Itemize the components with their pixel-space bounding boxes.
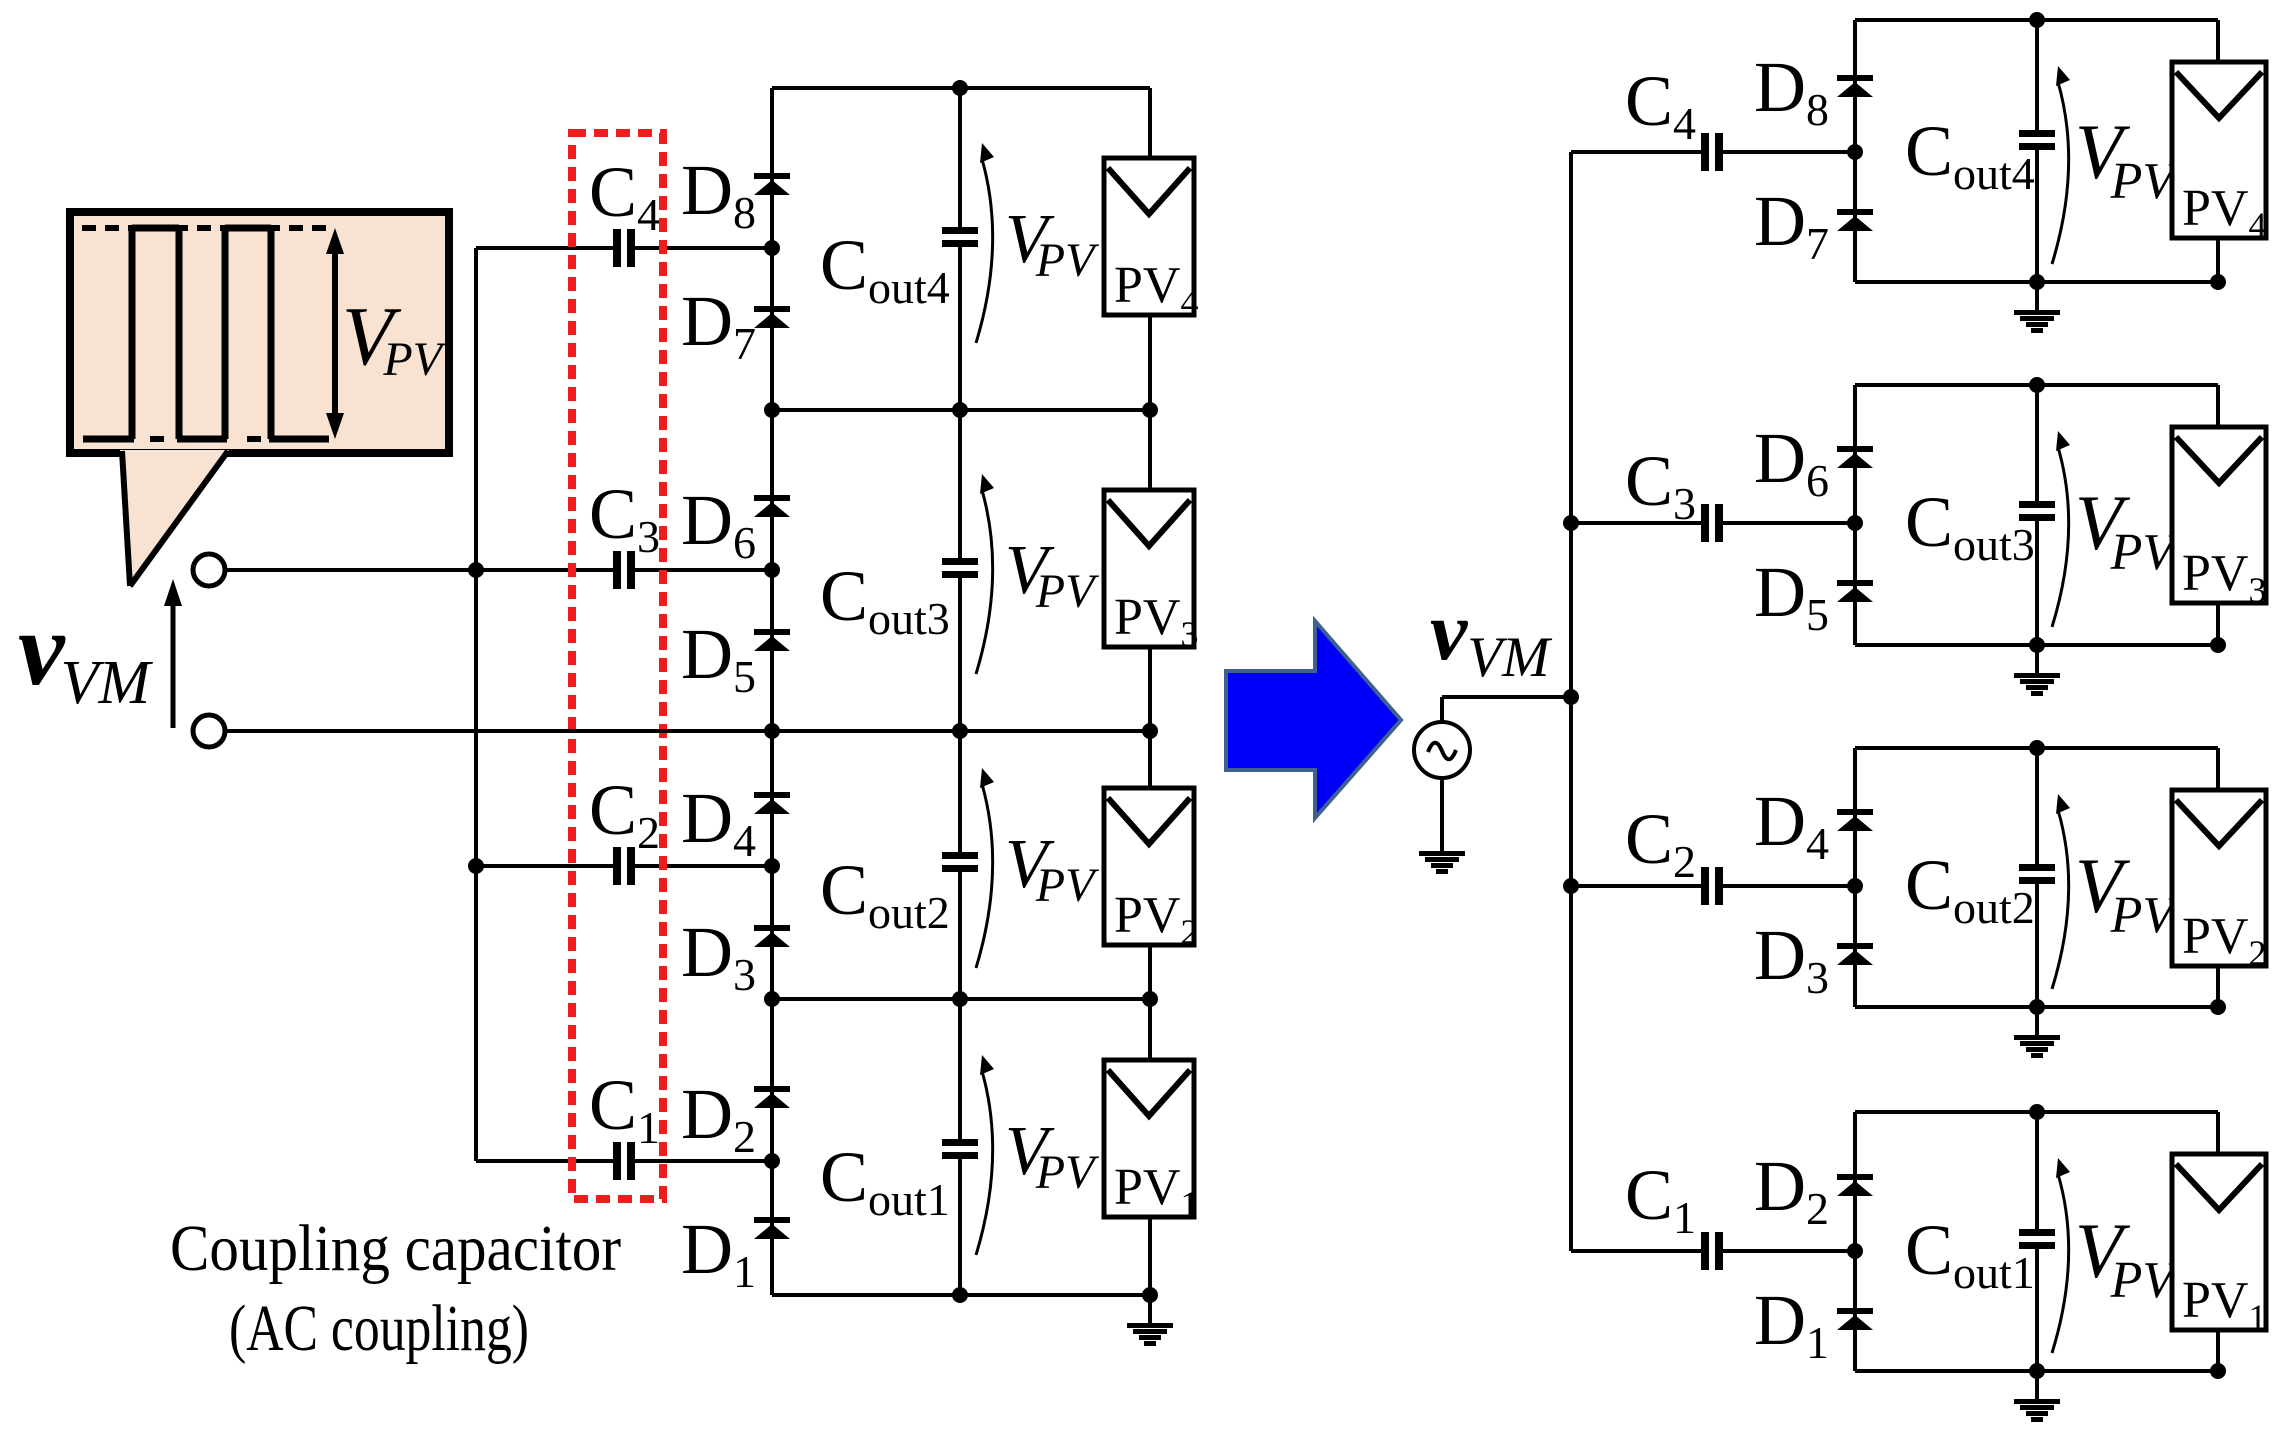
wire bus to C1 left plate xyxy=(476,1159,613,1163)
arrow vVM (left, pointing up) xyxy=(164,579,182,728)
capacitor C2 (right) xyxy=(1701,867,1723,905)
speech bubble box xyxy=(70,212,449,453)
wire right cell1 diode chain xyxy=(1853,1112,1857,1371)
wire right cell3 bottom rail xyxy=(1855,643,2218,647)
node right cell1 bottom junction xyxy=(2029,1363,2045,1379)
waveform square-wave trace xyxy=(83,228,329,439)
wire right bus to C2 xyxy=(1571,884,1701,888)
arrow VPV arc right cell2 (VPV direction) xyxy=(2052,794,2070,989)
wire C1 to cell node xyxy=(1723,1249,1855,1253)
wire Cout4 bottom lead (right) xyxy=(2035,150,2039,282)
PV module PV3 (left) xyxy=(1104,490,1198,654)
node left chain junction y=410 xyxy=(764,402,780,418)
diode D8 (left) xyxy=(754,173,790,195)
wire Cout3 bottom lead (right) xyxy=(2035,521,2039,645)
wire Cout1 top lead (right) xyxy=(2035,1112,2039,1229)
wire C2 right plate to diode chain xyxy=(635,864,772,868)
arrow VPV arc right cell4 (VPV direction) xyxy=(2052,66,2070,264)
arrow VPV amplitude (double-headed) xyxy=(326,228,344,439)
node right cell4 bottom junction xyxy=(2029,274,2045,290)
node left PV column junction y=1295 xyxy=(1142,1287,1158,1303)
PV module PV2 (right) xyxy=(2172,790,2266,973)
wire PV2 top lead (right) xyxy=(2216,748,2220,790)
node right cell1 cap node xyxy=(1847,1243,1863,1259)
wire C3 right plate to diode chain xyxy=(635,568,772,572)
diode D5 (right) xyxy=(1837,580,1873,602)
node right bus C2 junction xyxy=(1563,878,1579,894)
wire Cout2 top lead (right) xyxy=(2035,748,2039,864)
wire Cout3 top lead xyxy=(958,410,962,558)
wire PV4 bottom lead xyxy=(1148,315,1152,410)
node right cell4 top junction xyxy=(2029,12,2045,28)
wire source to right bus xyxy=(1442,695,1571,699)
node left Cout column junction y=731 xyxy=(952,723,968,739)
wire right cell1 top rail xyxy=(1855,1110,2218,1114)
capacitor Cout2 (right) xyxy=(2019,864,2055,884)
diode D8 (right) xyxy=(1837,75,1873,97)
ground right cell2 ground xyxy=(2014,1035,2060,1058)
wire C3 to cell node xyxy=(1723,521,1855,525)
capacitor Cout1 (right) xyxy=(2019,1229,2055,1249)
wire Cout4 bottom lead xyxy=(958,247,962,410)
PV module PV1 (left) xyxy=(1104,1060,1198,1224)
node right cell4 PV bottom junction xyxy=(2210,274,2226,290)
capacitor C1 (right) xyxy=(1701,1232,1723,1270)
wire PV3 bottom lead xyxy=(1148,647,1152,731)
wire PV1 top lead xyxy=(1148,999,1152,1060)
wire left coupling bus vertical xyxy=(474,248,478,1161)
wire right cell2 diode chain xyxy=(1853,748,1857,1007)
wire PV3 top lead (right) xyxy=(2216,385,2220,427)
node right bus source junction xyxy=(1563,689,1579,705)
diode D1 (left) xyxy=(754,1217,790,1239)
blue arrow (transformation) xyxy=(1226,621,1401,818)
waveform top dashed level line xyxy=(82,225,335,231)
wire Cout3 top lead (right) xyxy=(2035,385,2039,501)
wire right bus to C3 xyxy=(1571,521,1701,525)
wire PV3 top lead xyxy=(1148,410,1152,490)
node left chain junction y=248 xyxy=(764,240,780,256)
diode D2 (right) xyxy=(1837,1174,1873,1196)
wire Cout3 bottom lead xyxy=(958,578,962,731)
wire source top lead xyxy=(1440,697,1444,722)
wire right cell1 bottom rail xyxy=(1855,1369,2218,1373)
svg-text:(AC coupling): (AC coupling) xyxy=(229,1292,529,1365)
PV module PV4 (left) xyxy=(1104,158,1198,322)
diode D4 (right) xyxy=(1837,809,1873,831)
node left Cout column junction y=999 xyxy=(952,991,968,1007)
diode D3 (left) xyxy=(754,925,790,947)
diode D4 (left) xyxy=(754,792,790,814)
wire right cell1 ground lead xyxy=(2035,1371,2039,1399)
diode D1 (right) xyxy=(1837,1308,1873,1330)
wire Cout2 top lead xyxy=(958,731,962,852)
red dashed highlight box (coupling capacitors) xyxy=(572,133,663,1199)
wire right cell4 bottom rail xyxy=(1855,280,2218,284)
wire left ground lead xyxy=(1148,1295,1152,1323)
wire source bottom lead xyxy=(1440,778,1444,851)
node right bus C3 junction xyxy=(1563,515,1579,531)
diode D6 (right) xyxy=(1837,446,1873,468)
wire Cout2 bottom lead xyxy=(958,872,962,999)
wire bus to C2 left plate xyxy=(476,864,613,868)
node right cell2 top junction xyxy=(2029,740,2045,756)
wire Cout1 top lead xyxy=(958,999,962,1139)
wire PV1 top lead (right) xyxy=(2216,1112,2220,1154)
capacitor Cout2 (left) xyxy=(942,852,978,872)
wire right cell3 top rail xyxy=(1855,383,2218,387)
wire right cell4 ground lead xyxy=(2035,282,2039,310)
capacitor C3 (right) xyxy=(1701,504,1723,542)
speech bubble tail xyxy=(120,450,229,590)
capacitor C4 (left) xyxy=(613,229,635,267)
wire PV2 bottom lead (right) xyxy=(2216,966,2220,1007)
node right cell2 bottom junction xyxy=(2029,999,2045,1015)
wire right bus to C4 xyxy=(1571,150,1701,154)
wire right cell3 ground lead xyxy=(2035,645,2039,673)
diode D6 (left) xyxy=(754,495,790,517)
node right cell1 top junction xyxy=(2029,1104,2045,1120)
node bus-C3 junction xyxy=(468,562,484,578)
arrow VPV arc left cell cy=1149 (VPV direction) xyxy=(976,1055,994,1255)
diode D5 (left) xyxy=(754,629,790,651)
wire Cout4 top lead (right) xyxy=(2035,20,2039,130)
node left chain junction y=570 xyxy=(764,562,780,578)
capacitor Cout1 (left) xyxy=(942,1139,978,1159)
capacitor C4 (right) xyxy=(1701,133,1723,171)
wire PV1 bottom lead xyxy=(1148,1217,1152,1295)
wire right cell4 top rail xyxy=(1855,18,2218,22)
wire C4 right plate to diode chain xyxy=(635,246,772,250)
node right cell2 cap node xyxy=(1847,878,1863,894)
capacitor Cout3 (left) xyxy=(942,558,978,578)
arrow VPV arc right cell3 (VPV direction) xyxy=(2052,431,2070,627)
wire PV3 bottom lead (right) xyxy=(2216,603,2220,645)
wire PV4 top lead (right) xyxy=(2216,20,2220,62)
node left chain junction y=731 xyxy=(764,723,780,739)
PV module PV3 (right) xyxy=(2172,427,2266,610)
PV module PV1 (right) xyxy=(2172,1154,2266,1337)
wire right cell4 diode chain xyxy=(1853,20,1857,282)
arrow VPV arc left cell cy=862 (VPV direction) xyxy=(976,768,994,968)
arrow VPV arc left cell cy=568 (VPV direction) xyxy=(976,474,994,674)
wire left cell2/cell1 rail xyxy=(772,997,1150,1001)
wire Cout1 bottom lead xyxy=(958,1159,962,1295)
wire PV4 top lead xyxy=(1148,88,1152,158)
node bus-C2 junction xyxy=(468,858,484,874)
node left PV column junction y=410 xyxy=(1142,402,1158,418)
arrow VPV arc right cell1 (VPV direction) xyxy=(2052,1158,2070,1353)
capacitor Cout3 (right) xyxy=(2019,501,2055,521)
wire right bus vertical xyxy=(1569,152,1573,1251)
node right cell3 top junction xyxy=(2029,377,2045,393)
wire PV2 bottom lead xyxy=(1148,945,1152,999)
terminal upper (left input +) xyxy=(193,554,225,586)
diode D7 (right) xyxy=(1837,209,1873,231)
node left PV column junction y=731 xyxy=(1142,723,1158,739)
svg-text:Coupling capacitor: Coupling capacitor xyxy=(170,1212,621,1285)
node left Cout column junction y=410 xyxy=(952,402,968,418)
wire right cell2 top rail xyxy=(1855,746,2218,750)
capacitor Cout4 (left) xyxy=(942,227,978,247)
ground right cell1 ground xyxy=(2014,1399,2060,1422)
diode D3 (right) xyxy=(1837,943,1873,965)
node left chain junction y=999 xyxy=(764,991,780,1007)
node left Cout column junction y=1295 xyxy=(952,1287,968,1303)
node left chain junction y=1161 xyxy=(764,1153,780,1169)
wire C1 right plate to diode chain xyxy=(635,1159,772,1163)
ground right cell4 ground xyxy=(2014,310,2060,333)
diode D7 (left) xyxy=(754,306,790,328)
node right cell3 cap node xyxy=(1847,515,1863,531)
ground left circuit ground xyxy=(1127,1323,1173,1346)
wire upper terminal to C3 left plate xyxy=(225,568,613,572)
capacitor Cout4 (right) xyxy=(2019,130,2055,150)
wire bus to C4 left plate xyxy=(476,246,613,250)
wire PV4 bottom lead (right) xyxy=(2216,238,2220,282)
PV module PV4 (right) xyxy=(2172,62,2266,245)
diode D2 (left) xyxy=(754,1086,790,1108)
node right cell1 PV bottom junction xyxy=(2210,1363,2226,1379)
wire Cout4 top lead xyxy=(958,88,962,227)
wire right cell2 bottom rail xyxy=(1855,1005,2218,1009)
AC source vVM xyxy=(1414,722,1470,778)
wire PV1 bottom lead (right) xyxy=(2216,1330,2220,1371)
wire right cell2 ground lead xyxy=(2035,1007,2039,1035)
wire left cell1 bottom rail xyxy=(772,1293,1150,1297)
capacitor C1 (left) xyxy=(613,1142,635,1180)
wire Cout2 bottom lead (right) xyxy=(2035,884,2039,1007)
wire C4 to cell node xyxy=(1723,150,1855,154)
node left chain junction y=866 xyxy=(764,858,780,874)
node left PV column junction y=999 xyxy=(1142,991,1158,1007)
node right cell2 PV bottom junction xyxy=(2210,999,2226,1015)
ground right cell3 ground xyxy=(2014,673,2060,696)
wire left cell4/cell3 rail xyxy=(772,408,1150,412)
wire Cout1 bottom lead (right) xyxy=(2035,1249,2039,1371)
wire right bus to C1 xyxy=(1571,1249,1701,1253)
ground source ground xyxy=(1419,851,1465,874)
waveform bottom dash-dot level line xyxy=(150,436,261,442)
capacitor C3 (left) xyxy=(613,551,635,589)
arrow VPV arc left cell cy=237 (VPV direction) xyxy=(976,143,994,343)
terminal lower (left input -) xyxy=(193,715,225,747)
node right cell3 PV bottom junction xyxy=(2210,637,2226,653)
PV module PV2 (left) xyxy=(1104,788,1198,952)
capacitor C2 (left) xyxy=(613,847,635,885)
wire PV2 top lead xyxy=(1148,731,1152,788)
node right cell4 cap node xyxy=(1847,144,1863,160)
wire left cell4 top rail xyxy=(772,86,1150,90)
wire right cell3 diode chain xyxy=(1853,385,1857,645)
node right cell3 bottom junction xyxy=(2029,637,2045,653)
wire C2 to cell node xyxy=(1723,884,1855,888)
node left Cout column junction y=88 xyxy=(952,80,968,96)
wire left cell3/cell2 rail (lower terminal) xyxy=(225,729,1150,733)
wire left diode chain vertical xyxy=(770,88,774,1295)
